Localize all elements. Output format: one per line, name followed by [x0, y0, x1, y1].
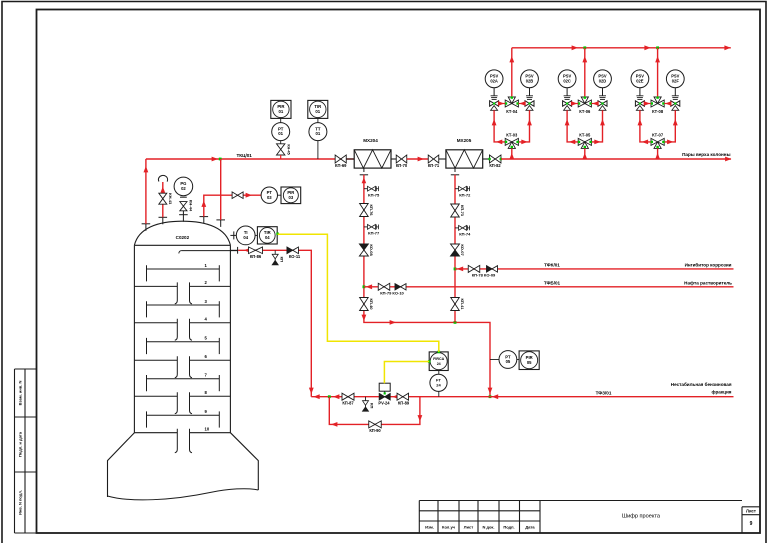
- svg-text:24: 24: [436, 382, 441, 387]
- svg-text:02E: 02E: [636, 78, 644, 83]
- svg-text:КП-73: КП-73: [460, 205, 465, 217]
- svg-text:КТ-04: КТ-04: [506, 109, 518, 114]
- PSV spring + angle valve: [674, 88, 676, 96]
- safety valve PSV 02F: [666, 70, 684, 88]
- svg-text:03: 03: [267, 195, 272, 200]
- column bottom break line: [108, 489, 259, 500]
- svg-text:КП-86: КП-86: [250, 254, 262, 259]
- svg-text:Изм.: Изм.: [425, 525, 434, 530]
- wire PSV outlet arrows: [571, 101, 577, 106]
- svg-text:04: 04: [265, 235, 270, 240]
- valve КП-70: [396, 155, 407, 163]
- svg-text:КП-79 КО-10: КП-79 КО-10: [380, 290, 404, 295]
- node bottom product junction: [489, 395, 492, 398]
- svg-text:КП-82: КП-82: [489, 163, 501, 168]
- svg-text:КП-89: КП-89: [398, 401, 410, 406]
- svg-text:Инв. N подл.: Инв. N подл.: [18, 490, 23, 515]
- tray 10: [134, 432, 177, 434]
- transmitter PT-01: [271, 100, 291, 118]
- svg-text:КП-71: КП-71: [428, 163, 440, 168]
- svg-text:Лист: Лист: [746, 509, 756, 514]
- wire MX205 bottom drain: [454, 168, 456, 172]
- svg-text:КП-41: КП-41: [460, 298, 465, 310]
- wire PSV inlet leg left: [567, 110, 578, 142]
- valve КП-40: [360, 298, 369, 311]
- sheet number cell: [742, 506, 760, 508]
- svg-text:КП-72: КП-72: [459, 192, 471, 197]
- svg-text:КП-70: КП-70: [396, 163, 408, 168]
- wire PSV inlet leg right: [518, 110, 529, 142]
- wire nozzle4 branch to PT-03: [204, 195, 261, 216]
- PSV spring + angle valve: [529, 88, 531, 96]
- PSV spring + angle valve: [639, 88, 641, 96]
- tray 9: [147, 414, 220, 416]
- vent hook on nozzle2 line: [162, 182, 164, 217]
- svg-text:фракция: фракция: [711, 388, 731, 394]
- check valve КО-08: [359, 244, 368, 256]
- column nozzle flange: [220, 220, 222, 227]
- wire PSV outlet arrows: [498, 101, 504, 106]
- svg-text:Ингибитор коррозии: Ингибитор коррозии: [685, 262, 732, 268]
- drain КП-88: [365, 397, 367, 401]
- column C0202 dome: [134, 221, 230, 245]
- column internal feed pipe: [181, 250, 237, 252]
- check valve КО-11: [287, 247, 299, 254]
- svg-text:24: 24: [437, 362, 441, 366]
- tray 3: [147, 304, 220, 306]
- svg-text:КО-08: КО-08: [369, 244, 374, 256]
- svg-text:КО-11: КО-11: [289, 254, 301, 259]
- svg-text:МХ205: МХ205: [457, 138, 472, 143]
- svg-text:Взам. инв. N: Взам. инв. N: [18, 381, 23, 406]
- svg-text:КТ-05: КТ-05: [579, 133, 591, 138]
- valve КП-90: [369, 421, 382, 428]
- svg-text:КН-43: КН-43: [168, 193, 173, 205]
- wire riser from nozzle1 to overhead header: [145, 159, 147, 224]
- check valve КО-07: [451, 244, 460, 256]
- wire riser КТ-08 to flare header: [657, 48, 659, 97]
- svg-text:КП-87: КП-87: [342, 401, 354, 406]
- svg-text:02A: 02A: [490, 78, 498, 83]
- valve КП-86: [249, 247, 263, 254]
- three-way valve КТ-03: [505, 138, 518, 148]
- drain valve КП-77: [364, 226, 368, 228]
- recorder PIR-03: [281, 187, 301, 204]
- svg-text:КН-45: КН-45: [286, 144, 290, 154]
- safety valve PSV 02E: [631, 70, 649, 88]
- svg-text:КТ-08: КТ-08: [652, 109, 664, 114]
- wire PSV outlet arrows: [644, 101, 650, 106]
- svg-text:КТ-03: КТ-03: [506, 133, 518, 138]
- svg-text:КП-40: КП-40: [369, 298, 374, 310]
- three-way valve КТ-07: [651, 138, 664, 148]
- svg-text:02C: 02C: [563, 78, 571, 83]
- wire PSV inlet leg right: [664, 110, 675, 142]
- root valve under PT-01: [280, 141, 282, 144]
- svg-text:КТ-06: КТ-06: [579, 109, 591, 114]
- flare header: [512, 47, 731, 49]
- flow element stub FT-24: [438, 391, 440, 396]
- svg-text:02F: 02F: [672, 78, 680, 83]
- svg-text:ТФЗ/01: ТФЗ/01: [596, 390, 612, 395]
- check valve КО-10: [395, 284, 406, 290]
- wire MX204 bottom drain: [363, 168, 365, 172]
- svg-text:FIRCA: FIRCA: [433, 357, 444, 361]
- svg-text:ТФК/01: ТФК/01: [544, 263, 560, 268]
- safety valve PSV 02D: [594, 70, 612, 88]
- flow transmitter FT-24: [438, 371, 440, 375]
- column nozzle flange: [162, 217, 164, 224]
- column nozzle flange: [203, 217, 205, 224]
- svg-text:N док.: N док.: [482, 525, 494, 530]
- svg-text:01: 01: [315, 109, 320, 114]
- pressure tap PT-05 stub: [490, 359, 499, 361]
- check valve КО-09: [487, 266, 498, 272]
- svg-text:КО-07: КО-07: [460, 244, 465, 256]
- three-way valve КТ-08: [651, 97, 664, 107]
- wire feed line into column: [230, 249, 238, 251]
- valve КП-71: [428, 155, 439, 163]
- node feed drop junction: [328, 395, 331, 398]
- svg-text:04: 04: [243, 235, 248, 240]
- node ТФБ junction: [363, 285, 366, 288]
- transmitter PT-03: [261, 187, 277, 203]
- svg-text:03: 03: [289, 195, 294, 200]
- svg-text:Нестабильная бензиновая: Нестабильная бензиновая: [671, 381, 732, 387]
- valve КП-79: [378, 283, 390, 290]
- svg-text:PV-24: PV-24: [378, 401, 390, 406]
- svg-text:КП: КП: [370, 403, 375, 408]
- svg-text:КН-44: КН-44: [188, 200, 193, 212]
- wire MX204 to MX205: [391, 158, 397, 160]
- three-way valve КТ-05: [578, 138, 591, 148]
- svg-text:02: 02: [181, 186, 186, 191]
- svg-text:КП-78 КО-09: КП-78 КО-09: [472, 272, 496, 277]
- svg-text:Нафта растворитель: Нафта растворитель: [684, 280, 732, 286]
- valve КП-87: [342, 393, 354, 400]
- svg-text:ТКЦ/01: ТКЦ/01: [237, 153, 253, 158]
- svg-text:Пары верха колонны: Пары верха колонны: [682, 152, 730, 157]
- tray 1: [147, 268, 220, 270]
- heat exchanger MX205: [446, 150, 483, 168]
- safety valve PSV 02C: [558, 70, 576, 88]
- wire overhead header TKC/01: [146, 158, 354, 160]
- wire КТ-07 to vapor header: [657, 148, 659, 159]
- wire ТФК/01 corrosion inhibitor line: [455, 268, 734, 270]
- valve КП-76: [360, 204, 369, 217]
- svg-text:02B: 02B: [526, 78, 534, 83]
- valve КП-73: [451, 204, 460, 217]
- svg-text:МХ204: МХ204: [363, 138, 378, 143]
- column nozzle flange: [182, 215, 184, 222]
- signal wire FIRCA-24 to PV-24: [384, 362, 429, 384]
- svg-text:Дата: Дата: [525, 525, 535, 530]
- wire PSV inlet leg right: [591, 110, 602, 142]
- tray 6: [134, 359, 177, 361]
- wire bypass loop КП-90: [329, 397, 420, 425]
- temperature instruments TI-04 / TIR-04: [230, 234, 236, 236]
- svg-text:10: 10: [205, 427, 210, 432]
- signal wire TIR-04 to FIRCA-24: [278, 234, 439, 352]
- svg-text:05: 05: [506, 359, 511, 364]
- controller FIRCA-24: [429, 352, 448, 371]
- wire bottom product line ТФЗ/01: [311, 396, 733, 398]
- wire PSV inlet leg left: [640, 110, 651, 142]
- drain valve КП-72: [455, 188, 459, 190]
- safety valve PSV 02B: [521, 70, 539, 88]
- tray 4: [134, 322, 177, 324]
- transmitter TT-01: [308, 100, 328, 118]
- svg-text:КП-75: КП-75: [368, 192, 380, 197]
- svg-text:Лист: Лист: [464, 525, 473, 530]
- svg-text:C0202: C0202: [176, 235, 190, 240]
- transmitter PT-05: [499, 351, 517, 369]
- wire PSV inlet leg left: [494, 110, 505, 142]
- tray 5: [147, 341, 220, 343]
- valve КП-41: [451, 298, 460, 311]
- column skirt: [108, 433, 135, 497]
- svg-text:Шифр проекта: Шифр проекта: [622, 514, 661, 520]
- svg-text:КП-74: КП-74: [459, 232, 471, 237]
- PSV spring + angle valve: [493, 88, 495, 96]
- drain under feed line КП-85: [274, 250, 276, 254]
- three-way valve КТ-06: [578, 97, 591, 107]
- tray 2: [134, 285, 177, 287]
- valve КН-44: [180, 202, 187, 211]
- column C0202 shell: [133, 245, 135, 432]
- svg-text:9: 9: [750, 521, 753, 527]
- drain valve КП-75: [364, 188, 368, 190]
- valve КП-78: [468, 265, 480, 272]
- PSV spring + angle valve: [566, 88, 568, 96]
- svg-text:01: 01: [316, 131, 321, 136]
- PSV spring + angle valve: [602, 88, 604, 96]
- valve КН-43: [159, 193, 167, 204]
- node flare junction 3: [656, 46, 659, 49]
- svg-text:02D: 02D: [599, 78, 607, 83]
- recorder PIR-05: [519, 351, 539, 370]
- svg-text:Подп. и дата: Подп. и дата: [18, 431, 23, 457]
- wire arrow on drain header: [390, 320, 396, 325]
- wire КТ-03 to vapor header: [511, 148, 513, 159]
- valve КП-82: [489, 155, 501, 163]
- svg-text:КП-90: КП-90: [369, 428, 381, 433]
- svg-text:КП-69: КП-69: [335, 163, 347, 168]
- svg-text:01: 01: [279, 109, 284, 114]
- wire riser КТ-06 to flare header: [584, 48, 586, 97]
- left stamp column: [14, 369, 16, 533]
- three-way valve КТ-04: [505, 97, 518, 107]
- control valve PV-24: [379, 383, 390, 391]
- wire overhead vapor header to right: [501, 158, 731, 160]
- wire КТ-05 to vapor header: [584, 148, 586, 159]
- svg-text:05: 05: [527, 360, 532, 365]
- wire riser КТ-04 to flare header: [511, 48, 513, 97]
- wire ТФБ/01 line: [364, 286, 734, 288]
- valve on PT-03 branch: [232, 192, 243, 199]
- node MX205 drain junction: [454, 321, 457, 324]
- node flare junction 2: [583, 46, 586, 49]
- svg-text:Кол.уч: Кол.уч: [442, 525, 456, 530]
- svg-text:Подп.: Подп.: [503, 525, 514, 530]
- safety valve PSV 02A: [485, 70, 503, 88]
- pressure gauge PG-02: [182, 211, 184, 215]
- heat exchanger MX204: [354, 150, 391, 168]
- node header/TKC junction: [219, 158, 222, 161]
- tray 8: [134, 395, 177, 397]
- wire riser TKC from nozzle5: [220, 159, 222, 220]
- valve КП-69: [335, 155, 346, 163]
- svg-text:01: 01: [278, 131, 283, 136]
- svg-text:КП: КП: [279, 257, 284, 262]
- node ТФК junction: [454, 268, 457, 271]
- valve КП-89: [397, 393, 409, 400]
- title block grid: [419, 500, 742, 502]
- column nozzle flange: [145, 224, 147, 231]
- svg-text:ТФБ/01: ТФБ/01: [544, 281, 561, 286]
- drain valve КП-74: [455, 227, 459, 229]
- svg-text:КП-76: КП-76: [369, 204, 374, 216]
- svg-text:КТ-07: КТ-07: [652, 133, 664, 138]
- svg-text:КП-77: КП-77: [368, 231, 380, 236]
- tray 7: [147, 378, 220, 380]
